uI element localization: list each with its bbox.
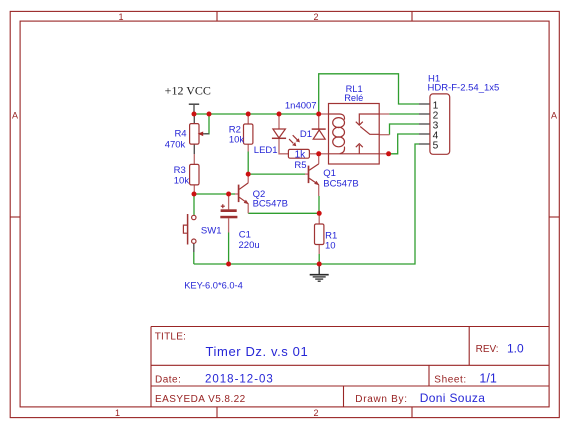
- svg-text:EASYEDA V5.8.22: EASYEDA V5.8.22: [155, 394, 246, 405]
- svg-text:A: A: [12, 110, 18, 120]
- svg-text:2: 2: [313, 12, 318, 22]
- svg-text:10: 10: [325, 241, 336, 252]
- svg-text:SW1: SW1: [201, 225, 222, 236]
- svg-text:BC547B: BC547B: [253, 198, 288, 209]
- svg-text:1.0: 1.0: [507, 341, 524, 355]
- svg-text:Date:: Date:: [155, 375, 181, 386]
- svg-text:10k: 10k: [229, 134, 245, 145]
- svg-text:2: 2: [313, 408, 318, 418]
- svg-text:R4: R4: [174, 128, 186, 139]
- svg-text:Timer Dz. v.s 01: Timer Dz. v.s 01: [206, 344, 309, 359]
- svg-text:Drawn By:: Drawn By:: [355, 394, 407, 405]
- svg-text:R3: R3: [174, 165, 186, 176]
- svg-text:TITLE:: TITLE:: [155, 331, 187, 342]
- svg-text:BC547B: BC547B: [323, 179, 358, 190]
- svg-text:1: 1: [118, 12, 123, 22]
- svg-text:KEY-6.0*6.0-4: KEY-6.0*6.0-4: [184, 280, 243, 290]
- svg-text:5: 5: [433, 140, 439, 151]
- svg-text:1n4007: 1n4007: [285, 100, 317, 111]
- svg-text:220u: 220u: [239, 240, 260, 251]
- svg-text:Sheet:: Sheet:: [434, 375, 467, 386]
- svg-text:470k: 470k: [165, 139, 186, 150]
- svg-text:Doni Souza: Doni Souza: [420, 391, 486, 405]
- svg-text:2018-12-03: 2018-12-03: [205, 374, 274, 386]
- svg-text:Relé: Relé: [344, 93, 363, 103]
- svg-text:C1: C1: [239, 230, 251, 241]
- svg-text:R5: R5: [294, 160, 306, 171]
- svg-text:+12 VCC: +12 VCC: [165, 84, 211, 98]
- svg-text:1: 1: [115, 408, 120, 418]
- svg-text:HDR-F-2.54_1x5: HDR-F-2.54_1x5: [428, 83, 500, 94]
- svg-text:1/1: 1/1: [479, 372, 496, 386]
- svg-text:D1: D1: [300, 129, 312, 140]
- svg-text:10k: 10k: [174, 176, 190, 187]
- svg-text:A: A: [551, 110, 557, 120]
- svg-text:LED1: LED1: [254, 145, 278, 156]
- svg-text:REV:: REV:: [476, 344, 499, 355]
